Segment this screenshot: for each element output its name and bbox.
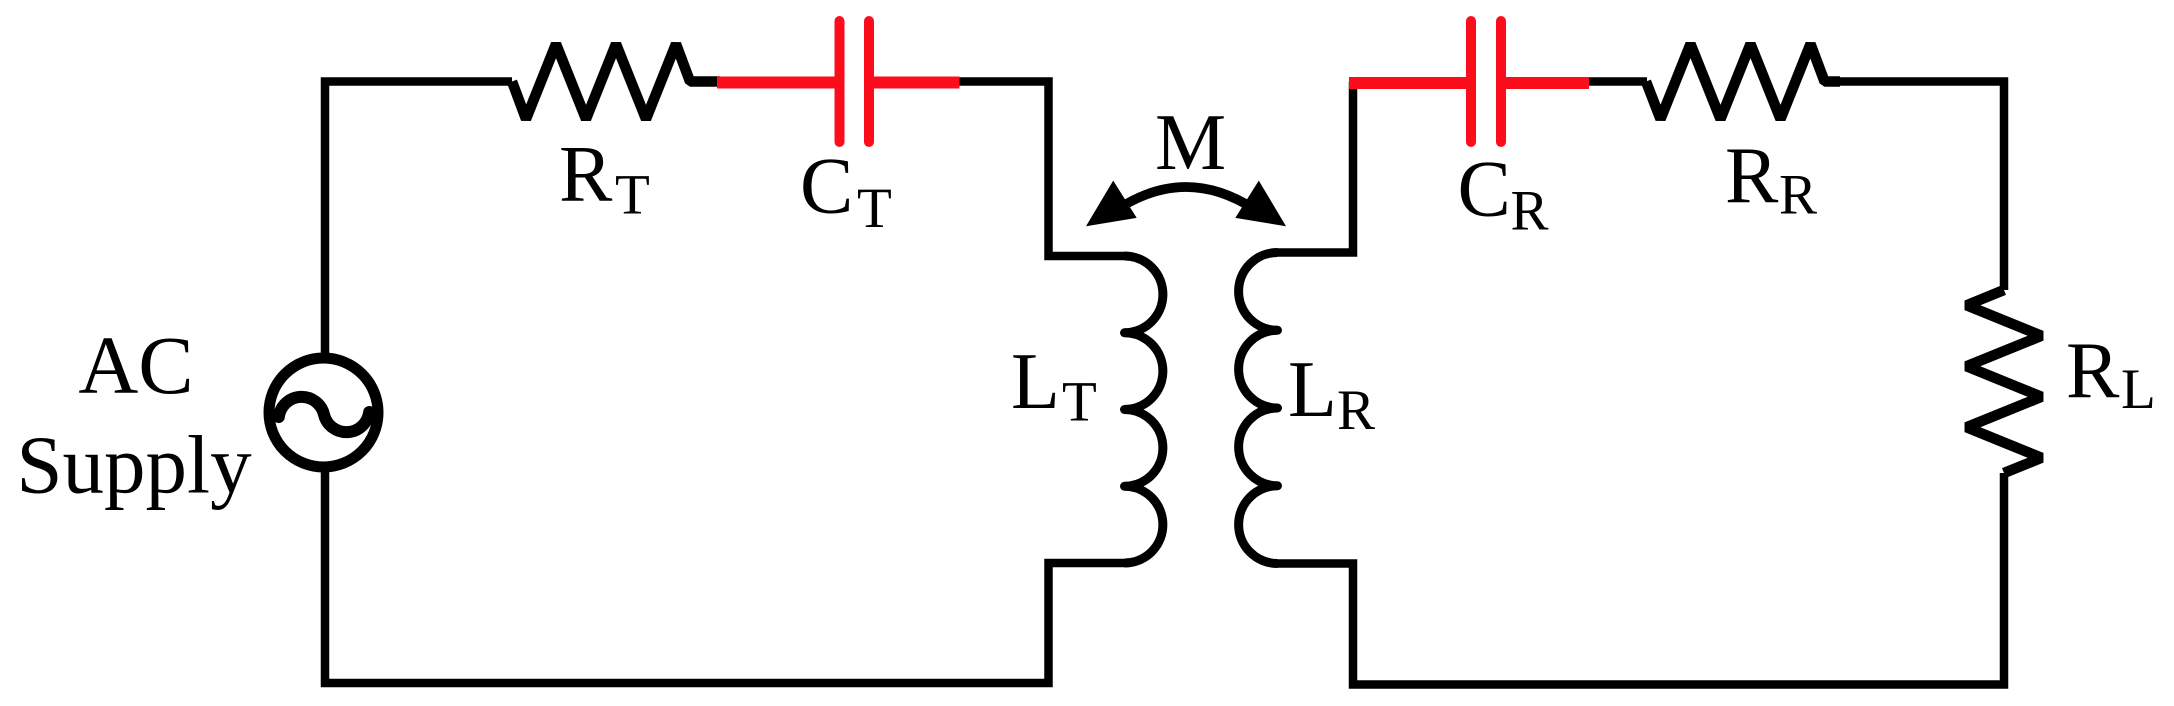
capacitor CT right red lead [873, 77, 960, 89]
mutual coupling arrow arc [1118, 187, 1254, 209]
svg-text:T: T [857, 177, 892, 240]
wire right loop: LR bottom lead, drop, bottom, right side up to RL [1278, 473, 2005, 685]
inductor LT coil [1125, 256, 1163, 563]
wire left loop: top-left lead, left side, bottom, riser to LT [325, 82, 1125, 684]
capacitor CR right red lead [1505, 77, 1589, 89]
svg-text:C: C [800, 143, 853, 231]
wire from CT to LT top corner [957, 82, 1125, 257]
capacitor CT right plate [864, 21, 874, 142]
svg-text:L: L [2121, 358, 2156, 421]
svg-text:AC: AC [78, 319, 193, 411]
resistor RL (vertical) [1967, 290, 2042, 473]
AC source sine wave [279, 397, 369, 432]
svg-text:L: L [1011, 338, 1060, 426]
svg-text:R: R [1511, 180, 1549, 243]
capacitor CR left red lead [1349, 77, 1467, 89]
capacitor CT left plate [835, 21, 845, 142]
capacitor CR right plate [1496, 21, 1506, 142]
svg-text:Supply: Supply [16, 419, 252, 511]
capacitor CT left red lead [717, 77, 836, 89]
svg-text:R: R [2066, 327, 2120, 415]
arrowhead left [1086, 181, 1137, 227]
svg-text:R: R [1725, 132, 1779, 220]
AC source circle [269, 358, 378, 467]
svg-text:T: T [1062, 371, 1097, 434]
wire RR to top-right corner and down [1838, 82, 2004, 291]
svg-text:R: R [559, 131, 613, 219]
resistor RR [1646, 44, 1840, 119]
arrowhead right [1235, 181, 1286, 227]
svg-text:T: T [615, 164, 650, 227]
inductor LR coil [1239, 252, 1278, 563]
svg-text:C: C [1458, 146, 1511, 234]
wire LR top lead and riser to CR [1278, 82, 1354, 253]
resistor RT [512, 44, 720, 119]
svg-text:M: M [1155, 99, 1226, 187]
svg-text:R: R [1337, 379, 1375, 442]
capacitor CR left plate [1466, 21, 1476, 142]
wire from CR to RR [1589, 77, 1647, 86]
svg-text:R: R [1779, 164, 1817, 227]
svg-text:L: L [1288, 346, 1337, 434]
